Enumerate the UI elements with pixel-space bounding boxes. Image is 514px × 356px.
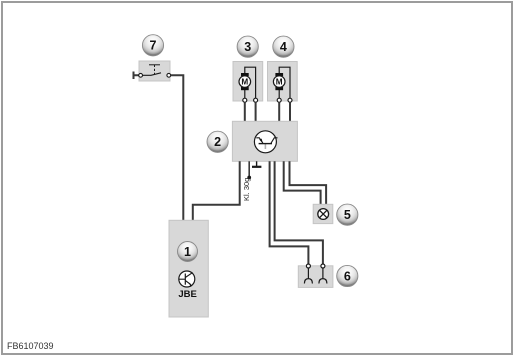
connector 6 terminal pin 2 [321, 264, 325, 268]
callout 4 [273, 36, 294, 57]
wire module 2 to JBE module 1 [193, 161, 240, 221]
svg-text:FB6107039: FB6107039 [7, 341, 54, 351]
motor 4 terminal pins [277, 98, 281, 102]
connector 6 terminal pin 1 [306, 264, 310, 268]
wire module 2 to lamp 5 left [284, 161, 321, 205]
motor 3 internal wire [245, 67, 256, 98]
callout 3 [237, 36, 258, 57]
motor 3 terminal pins [243, 98, 247, 102]
svg-text:2: 2 [214, 135, 221, 149]
switch 7 terminal pin left [139, 73, 143, 77]
wire module 2 to connector 6 pin 1 [270, 161, 309, 264]
pushbutton actuator of switch 7 [149, 65, 160, 74]
motor 4 symbol M [273, 76, 285, 88]
wire switch 7 to JBE module 1 [171, 75, 183, 221]
callout 5 [337, 204, 358, 225]
svg-text:3: 3 [244, 40, 251, 54]
svg-text:Kl. 30g: Kl. 30g [242, 178, 251, 201]
callout 7 [142, 35, 163, 56]
svg-text:5: 5 [344, 208, 351, 222]
motor M 3 housing [233, 62, 263, 102]
wire motor 4 pin 1 to module 2 [278, 102, 280, 122]
JBE module 1 housing [169, 220, 208, 317]
motor M 4 housing [268, 62, 298, 102]
motor 3 brushes [241, 73, 249, 76]
callout 6 [337, 265, 358, 286]
callout 2 [207, 131, 228, 152]
svg-text:M: M [241, 78, 248, 87]
ground [256, 161, 258, 166]
switch 7 contact lever [143, 73, 162, 76]
wire module 2 to connector 6 pin 2 [275, 161, 323, 264]
connector 6 housing [298, 266, 333, 288]
switch 7 left stub terminal [134, 72, 139, 80]
control module U2 housing [232, 121, 297, 161]
callout 1 [178, 242, 198, 262]
svg-text:7: 7 [150, 39, 157, 53]
svg-text:JBE: JBE [178, 289, 196, 300]
switch S (component 7) housing [139, 61, 170, 81]
wire module 2 to lamp 5 right [290, 161, 327, 205]
switch 7 terminal pin right [167, 73, 171, 77]
wire motor 3 pin 1 to module 2 [244, 102, 246, 122]
svg-text:1: 1 [184, 245, 191, 259]
transistor symbol in JBE [179, 271, 195, 287]
motor 4 internal wire [279, 67, 290, 98]
svg-text:6: 6 [344, 269, 351, 283]
wire motor 3 pin 2 to module 2 [255, 102, 257, 122]
lamp symbol [318, 209, 329, 220]
svg-text:M: M [276, 78, 283, 87]
wire motor 4 pin 2 to module 2 [289, 102, 291, 122]
connector 6 socket contact 2 [319, 268, 327, 284]
connector 6 socket contact 1 [304, 268, 312, 284]
transistor symbol in module 2 [254, 131, 277, 153]
motor 4 brushes [275, 73, 283, 76]
lamp 5 housing [313, 204, 333, 223]
svg-text:4: 4 [280, 40, 287, 54]
motor 3 symbol M [239, 76, 251, 88]
node Kl. 30g stub [248, 161, 250, 176]
